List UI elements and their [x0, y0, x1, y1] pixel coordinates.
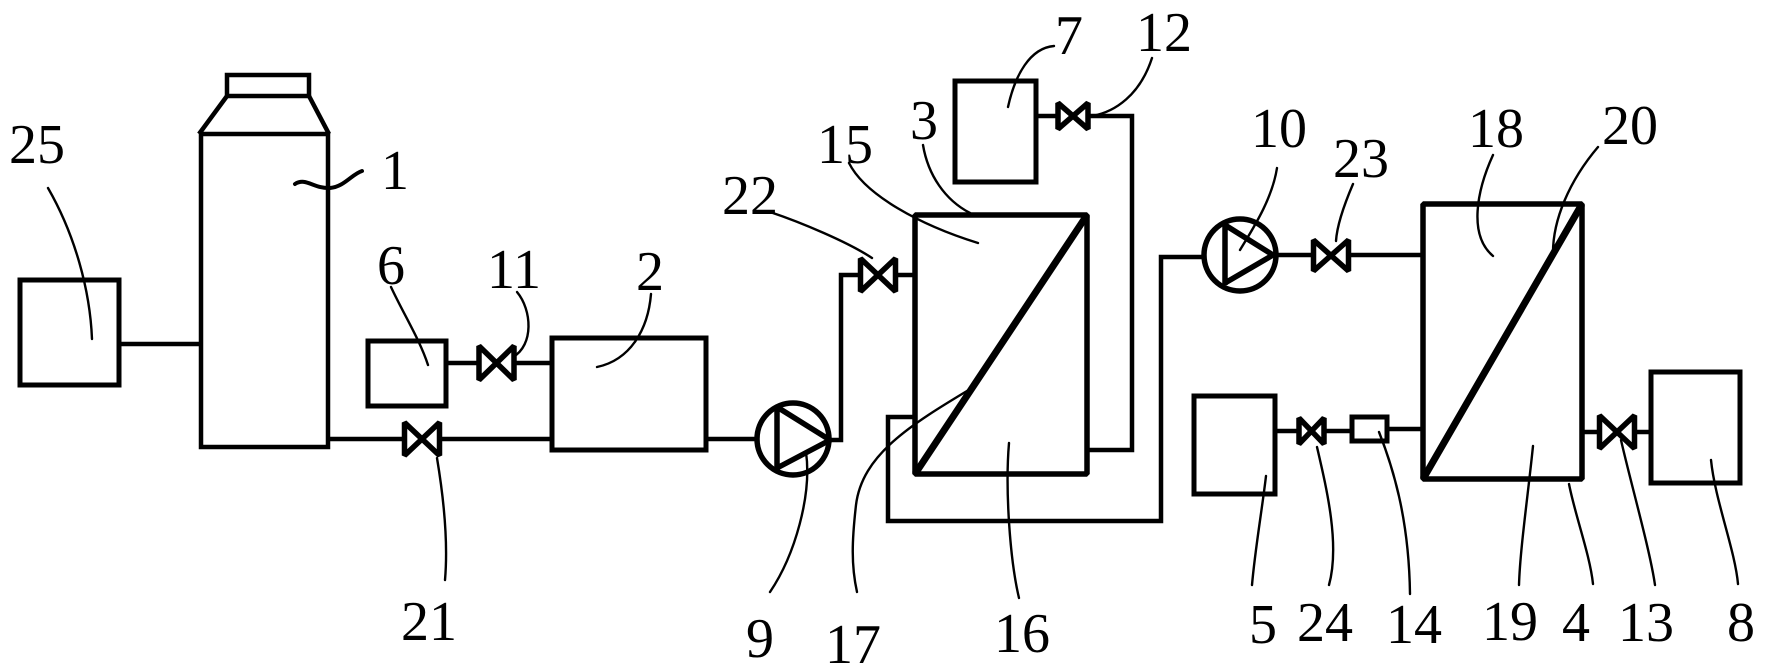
box 8 [1651, 372, 1740, 483]
svg-text:5: 5 [1249, 594, 1277, 656]
leader for 14 [1379, 432, 1410, 594]
leader for 19 [1519, 446, 1533, 585]
module 18 body [1423, 204, 1582, 479]
valve 24 [1299, 418, 1324, 444]
leader for 7 [1008, 46, 1054, 107]
box 5 [1194, 396, 1275, 494]
svg-text:18: 18 [1468, 98, 1524, 160]
leader for 12 [1092, 58, 1152, 116]
box 7 [955, 81, 1036, 182]
leader for 22 [770, 212, 872, 258]
svg-text:3: 3 [910, 90, 938, 152]
leader for 10 [1240, 168, 1277, 250]
leader for 24 [1317, 447, 1333, 585]
svg-text:12: 12 [1136, 2, 1192, 64]
tank 1 cap [227, 75, 309, 96]
leader for 13 [1621, 440, 1655, 585]
svg-text:2: 2 [636, 241, 664, 303]
wire component 14 to module 18 [1387, 427, 1423, 432]
valve 23 [1314, 240, 1349, 271]
leader for 5 [1252, 476, 1266, 585]
wire box25 to tank 1 [121, 342, 199, 347]
svg-text:4: 4 [1562, 592, 1590, 654]
wire box 2 to pump 9 [708, 437, 758, 442]
svg-text:21: 21 [401, 591, 457, 653]
svg-text:14: 14 [1386, 594, 1442, 656]
svg-text:25: 25 [9, 114, 65, 176]
box 6 [368, 341, 446, 406]
svg-text:19: 19 [1482, 591, 1538, 653]
leader for 2 [597, 294, 651, 367]
leader for 4 [1569, 484, 1593, 584]
svg-text:7: 7 [1055, 5, 1083, 67]
pump 10 [1204, 219, 1276, 291]
wire box 5 to component 14 [1277, 429, 1352, 434]
svg-text:11: 11 [487, 239, 541, 301]
leader for 6 [391, 287, 428, 365]
svg-text:15: 15 [817, 114, 873, 176]
module 15 body [915, 215, 1087, 474]
leader for 20 [1553, 147, 1598, 256]
leader for 15 [849, 163, 978, 243]
tank 1 body [201, 134, 328, 447]
svg-text:8: 8 [1727, 592, 1755, 654]
wire box 6 to box 2 [448, 361, 550, 366]
leader for 9 [770, 452, 807, 592]
tank 1 shoulders [199, 96, 329, 134]
membrane diagonal 17 [915, 215, 1087, 474]
wire box 7 through valve 12 down to module 15 right side [1036, 116, 1132, 450]
svg-text:20: 20 [1602, 95, 1658, 157]
wire permeate loop from module 15 to pump 10 [888, 257, 1205, 521]
svg-text:23: 23 [1333, 128, 1389, 190]
wire pump 9 up to module 15 inlet [828, 275, 915, 440]
leader for 23 [1336, 184, 1353, 241]
valve 13 [1600, 416, 1635, 449]
component 14 [1352, 417, 1387, 441]
svg-text:13: 13 [1618, 592, 1674, 654]
svg-text:10: 10 [1251, 98, 1307, 160]
leader for 18 [1477, 155, 1493, 256]
leader for 3 [923, 145, 970, 213]
box 25 [20, 280, 119, 385]
valve 11 [479, 346, 514, 380]
wire pump 10 to module 18 [1269, 253, 1423, 258]
svg-text:24: 24 [1297, 592, 1353, 654]
leader for 1 [295, 171, 362, 188]
leader for 16 [1008, 443, 1019, 598]
svg-text:9: 9 [746, 608, 774, 670]
wire tank 1 bottom to box 2 [330, 437, 550, 442]
pump 9 [757, 403, 829, 475]
leader for 11 [513, 292, 529, 357]
valve 12 [1058, 103, 1088, 129]
leader for 21 [437, 458, 446, 580]
box 2 [552, 338, 706, 450]
leader for 25 [48, 188, 92, 339]
valve 22 [861, 259, 896, 292]
leader for 17 [853, 388, 972, 592]
leader for 8 [1711, 460, 1738, 584]
svg-text:6: 6 [377, 235, 405, 297]
wire module 18 to box 8 [1582, 430, 1649, 435]
valve 21 [405, 423, 440, 456]
svg-text:16: 16 [994, 603, 1050, 665]
svg-text:22: 22 [722, 165, 778, 227]
membrane diagonal 20 [1423, 204, 1582, 479]
svg-text:1: 1 [381, 140, 409, 202]
svg-text:17: 17 [825, 614, 881, 671]
